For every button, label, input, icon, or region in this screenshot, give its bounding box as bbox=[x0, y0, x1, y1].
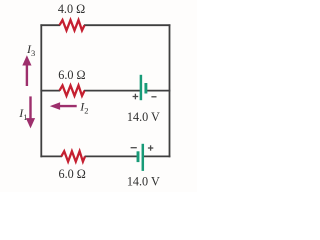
battery B2 bottom short plate (-) bbox=[137, 151, 140, 162]
battery B1 middle long plate (+) bbox=[140, 75, 143, 100]
resistor R2 6.0 ohm middle bbox=[60, 85, 85, 95]
wire middle-right segment bbox=[146, 90, 171, 92]
wire top-right segment bbox=[84, 24, 170, 26]
wire bottom-right segment bbox=[143, 155, 171, 157]
label + bottom battery bbox=[148, 145, 153, 150]
current arrow I3 (up) bbox=[22, 55, 31, 86]
svg-text:6.0 Ω: 6.0 Ω bbox=[59, 167, 86, 181]
wire middle-center segment bbox=[84, 90, 141, 92]
label 4.0 ohm bbox=[58, 2, 85, 16]
wire top-left segment bbox=[40, 24, 60, 26]
label 6.0 ohm bottom bbox=[59, 167, 86, 181]
label 6.0 ohm middle bbox=[58, 68, 85, 82]
wire bottom-left segment bbox=[40, 155, 62, 157]
label I2 bbox=[79, 100, 88, 116]
wire bottom-center segment bbox=[85, 155, 138, 157]
label 14.0 V middle battery bbox=[127, 110, 160, 124]
svg-text:14.0 V: 14.0 V bbox=[127, 110, 160, 124]
label I3 bbox=[26, 42, 35, 58]
resistor R3 6.0 ohm bottom bbox=[61, 151, 85, 161]
current arrow I2 (left) bbox=[50, 102, 77, 110]
svg-text:14.0 V: 14.0 V bbox=[127, 174, 160, 188]
wire right vertical bbox=[169, 24, 171, 157]
label I1 bbox=[18, 106, 27, 122]
wire left vertical bbox=[40, 24, 42, 157]
label - middle battery bbox=[151, 96, 156, 98]
label + middle battery bbox=[133, 94, 139, 100]
label - bottom battery bbox=[131, 147, 137, 149]
current arrow I1 (down) bbox=[26, 96, 35, 128]
label 14.0 V bottom battery bbox=[127, 174, 160, 188]
svg-text:6.0 Ω: 6.0 Ω bbox=[58, 68, 85, 82]
resistor R1 4.0 ohm top bbox=[60, 20, 85, 30]
battery B2 bottom long plate (+) bbox=[142, 144, 145, 171]
svg-text:4.0 Ω: 4.0 Ω bbox=[58, 2, 85, 16]
battery B1 middle short plate (-) bbox=[144, 83, 147, 94]
wire middle-left segment bbox=[40, 90, 60, 92]
